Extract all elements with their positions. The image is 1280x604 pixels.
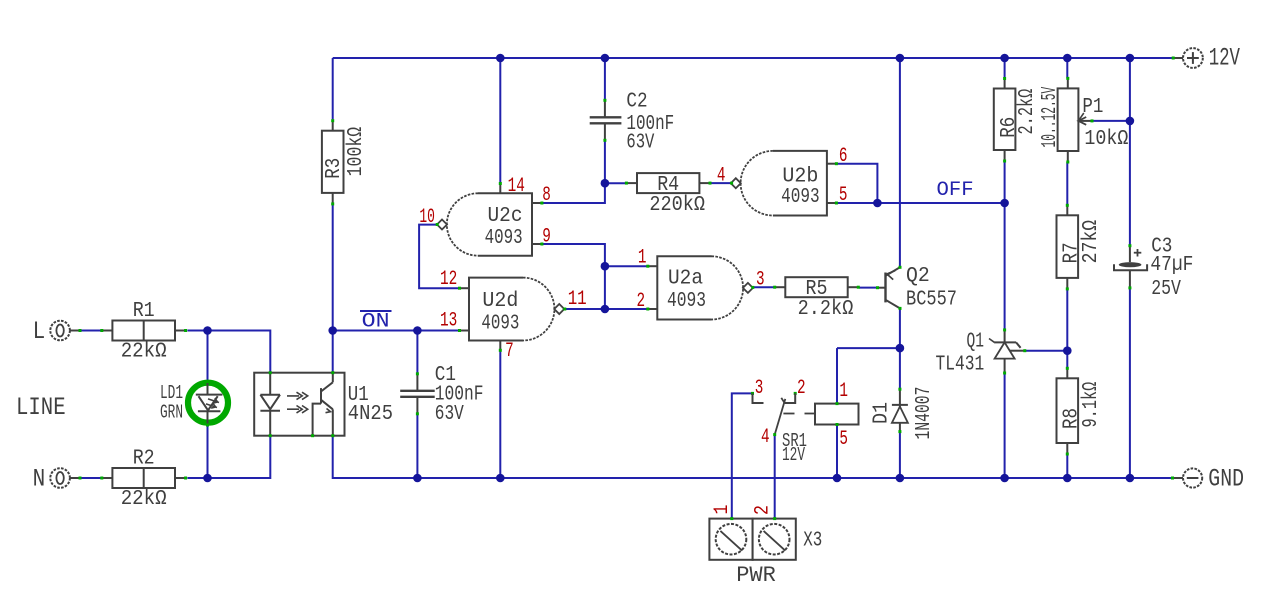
label 4N25 bbox=[348, 403, 393, 426]
wire R3 top column bbox=[332, 58, 334, 119]
resistor R5 bbox=[773, 277, 860, 321]
wire U2d out to U2a pin2 bbox=[564, 308, 648, 310]
label Q2 bbox=[906, 265, 930, 288]
junction top rail C3 bbox=[1126, 54, 1135, 63]
svg-text:R1: R1 bbox=[133, 300, 155, 323]
svg-text:PWR: PWR bbox=[736, 563, 776, 588]
wire C1 bottom wire bbox=[416, 414, 418, 478]
svg-text:U2c: U2c bbox=[488, 205, 523, 228]
pin number 11 bbox=[568, 288, 587, 311]
svg-text:22kΩ: 22kΩ bbox=[121, 340, 167, 363]
wire U2a pin1 wire bbox=[605, 265, 648, 267]
nand gate U2b bbox=[730, 151, 838, 216]
wire Q1 cathode column bbox=[1004, 203, 1006, 330]
label C2 bbox=[626, 91, 674, 155]
junction top rail P1 bbox=[1063, 54, 1072, 63]
wire relay coil branch bbox=[837, 347, 900, 349]
relay SR1 coil bbox=[815, 402, 859, 426]
svg-text:2: 2 bbox=[752, 505, 775, 515]
svg-text:1: 1 bbox=[711, 505, 734, 515]
label 1N4007 bbox=[913, 387, 936, 440]
svg-text:3: 3 bbox=[756, 269, 765, 292]
resistor R7 bbox=[1057, 204, 1104, 291]
junction N LD1 node bbox=[203, 474, 212, 483]
label SR1 12V bbox=[782, 444, 805, 466]
svg-text:5: 5 bbox=[839, 184, 848, 207]
svg-text:25V: 25V bbox=[1151, 278, 1181, 301]
svg-text:4N25: 4N25 bbox=[348, 403, 393, 426]
wire relay pin4 to X3 wire bbox=[774, 435, 776, 519]
label C1 bbox=[435, 364, 484, 426]
svg-text:U2a: U2a bbox=[668, 268, 703, 291]
junction Q1 ref node bbox=[1063, 346, 1072, 355]
svg-text:U2d: U2d bbox=[482, 290, 518, 313]
pin number 12 bbox=[440, 268, 457, 291]
wire C3 bottom column bbox=[1129, 288, 1131, 478]
pin number 8 bbox=[542, 184, 551, 207]
resistor R3 bbox=[322, 119, 368, 205]
shunt regulator Q1 TL431 bbox=[989, 328, 1026, 374]
label GRN bbox=[160, 402, 183, 424]
svg-text:Q1: Q1 bbox=[967, 331, 985, 354]
pin number 4 bbox=[761, 426, 770, 449]
capacitor C3 electrolytic bbox=[1114, 244, 1147, 289]
wire P1 to R7 wire bbox=[1066, 162, 1068, 206]
wire U2c output to pin12 bbox=[419, 225, 459, 289]
wire N terminal wire bbox=[70, 477, 102, 479]
wire C1 top wire bbox=[416, 331, 418, 375]
LED LD1 symbol bbox=[196, 380, 223, 427]
pin number 7 bbox=[505, 340, 514, 363]
resistor R6 bbox=[994, 77, 1039, 163]
wire U2c pin8 wire bbox=[542, 183, 605, 203]
wire OFF net wire bbox=[877, 202, 1004, 204]
svg-text:4093: 4093 bbox=[485, 227, 523, 250]
junction OFF R6 node bbox=[1000, 199, 1009, 208]
wire Q1 ref wire bbox=[1025, 350, 1068, 352]
power symbol +12V bbox=[1172, 48, 1203, 68]
terminal L bbox=[50, 321, 81, 341]
wire U2d pin7 wire bbox=[499, 351, 501, 478]
wire R4 left wire bbox=[605, 182, 627, 184]
optocoupler U1 bbox=[254, 371, 344, 437]
connector X3 terminal 2 bbox=[753, 517, 796, 560]
wire LD1 top wire bbox=[207, 331, 209, 382]
wire R8 bottom wire bbox=[1066, 454, 1068, 478]
resistor R1 bbox=[100, 300, 187, 363]
wire relay pin1 wire bbox=[836, 348, 838, 404]
wire Q2 emitter column bbox=[899, 58, 901, 267]
wire LD1 bottom wire bbox=[207, 425, 209, 478]
svg-text:L: L bbox=[33, 317, 46, 346]
svg-text:P1: P1 bbox=[1082, 96, 1103, 119]
wire U2b pin5 wire bbox=[836, 202, 877, 204]
wire R7 to R8 wire bbox=[1066, 289, 1068, 368]
svg-text:4: 4 bbox=[717, 165, 726, 188]
junction C1 gnd node bbox=[413, 474, 422, 483]
svg-text:1: 1 bbox=[638, 247, 647, 270]
junction pin7 gnd node bbox=[496, 474, 505, 483]
svg-text:GND: GND bbox=[1208, 465, 1244, 494]
svg-text:ON: ON bbox=[362, 311, 390, 334]
svg-text:LD1: LD1 bbox=[160, 382, 183, 404]
pin number 14 bbox=[508, 175, 525, 198]
pin number 13 bbox=[440, 309, 457, 332]
svg-text:22kΩ: 22kΩ bbox=[121, 488, 167, 511]
wire P1 top wire bbox=[1066, 58, 1068, 78]
svg-text:2: 2 bbox=[797, 377, 806, 400]
pin number 3 bbox=[756, 269, 765, 292]
svg-text:BC557: BC557 bbox=[906, 288, 957, 311]
svg-text:12V: 12V bbox=[1209, 44, 1240, 73]
label Q1 bbox=[967, 331, 985, 354]
svg-text:100kΩ: 100kΩ bbox=[345, 127, 368, 177]
wire U2c pin14 column bbox=[499, 58, 501, 184]
junction top rail R6 bbox=[1000, 54, 1009, 63]
nand gate U2c bbox=[436, 182, 544, 256]
junction pin1 node bbox=[601, 262, 610, 271]
junction top rail Q2 bbox=[896, 54, 905, 63]
junction pin2 node bbox=[601, 305, 610, 314]
net label ON with overline bbox=[360, 311, 392, 334]
svg-text:TL431: TL431 bbox=[936, 354, 985, 377]
label PWR bbox=[736, 563, 776, 588]
wire top +12V rail bbox=[333, 57, 1173, 59]
relay SR1 contact bbox=[751, 392, 814, 436]
svg-text:63V: 63V bbox=[626, 132, 654, 155]
label TL431 bbox=[936, 354, 985, 377]
wire U2a output wire bbox=[752, 286, 774, 288]
svg-text:1: 1 bbox=[839, 380, 848, 403]
wire bottom GND rail bbox=[333, 436, 1173, 478]
svg-text:X3: X3 bbox=[803, 530, 822, 553]
label BC557 bbox=[906, 288, 957, 311]
junction top rail C2 bbox=[601, 54, 610, 63]
pin number 10 bbox=[419, 206, 435, 229]
terminal N bbox=[50, 468, 81, 488]
wire R5 to Q2 base bbox=[859, 287, 878, 289]
svg-text:4: 4 bbox=[761, 426, 770, 449]
LED LD1 green ring bbox=[188, 383, 228, 423]
label D1 bbox=[871, 402, 894, 424]
svg-text:47µF: 47µF bbox=[1150, 254, 1193, 277]
label P1 bbox=[1082, 96, 1103, 119]
pin number 9 bbox=[542, 226, 551, 249]
wire C3 top column bbox=[1129, 58, 1131, 246]
svg-text:12V: 12V bbox=[782, 444, 805, 466]
wire D1 bottom wire bbox=[899, 432, 901, 478]
svg-text:2.2kΩ: 2.2kΩ bbox=[1016, 89, 1039, 135]
svg-text:OFF: OFF bbox=[937, 179, 974, 202]
svg-text:Q2: Q2 bbox=[906, 265, 930, 288]
svg-text:3: 3 bbox=[755, 377, 764, 400]
capacitor C1 bbox=[400, 372, 435, 415]
label X3 bbox=[803, 530, 822, 553]
pin number 6 bbox=[839, 145, 848, 168]
wire U2b pin6 wire bbox=[836, 164, 877, 203]
junction ON node bbox=[328, 326, 337, 335]
wire P1 wiper wire bbox=[1092, 120, 1130, 122]
svg-text:10..12.5V: 10..12.5V bbox=[1039, 87, 1062, 148]
junction Q2 relay node bbox=[896, 344, 905, 353]
junction P1 wiper node bbox=[1126, 117, 1135, 126]
wire R4 to U2b output bbox=[711, 182, 733, 184]
net label LINE bbox=[16, 393, 66, 422]
svg-text:13: 13 bbox=[440, 309, 457, 332]
wire R3 bottom to ON node bbox=[332, 204, 334, 330]
wire ON net wire bbox=[333, 330, 460, 332]
pin number X3-2 bbox=[752, 505, 775, 515]
capacitor C2 bbox=[590, 99, 622, 142]
svg-text:N: N bbox=[33, 465, 46, 494]
pin number 5 bbox=[839, 428, 848, 451]
svg-text:GRN: GRN bbox=[160, 402, 183, 424]
wire Q1 anode column bbox=[1004, 373, 1006, 478]
junction R8 gnd node bbox=[1063, 474, 1072, 483]
svg-text:220kΩ: 220kΩ bbox=[649, 194, 705, 217]
label C3 bbox=[1150, 236, 1193, 302]
svg-text:5: 5 bbox=[839, 428, 848, 451]
svg-text:27kΩ: 27kΩ bbox=[1080, 220, 1103, 264]
label 10k bbox=[1084, 128, 1128, 151]
svg-text:1N4007: 1N4007 bbox=[913, 387, 936, 440]
net label 12V bbox=[1209, 44, 1240, 73]
junction C3 gnd node bbox=[1126, 474, 1135, 483]
transistor Q2 bbox=[876, 266, 902, 310]
svg-text:2: 2 bbox=[637, 290, 646, 313]
junction top rail pin14 bbox=[496, 54, 505, 63]
pin number 2 bbox=[637, 290, 646, 313]
junction D1 gnd node bbox=[896, 474, 905, 483]
resistor R2 bbox=[100, 448, 187, 511]
svg-text:4093: 4093 bbox=[781, 186, 820, 209]
net label OFF bbox=[937, 179, 974, 202]
svg-text:12: 12 bbox=[440, 268, 457, 291]
pin number 1 bbox=[638, 247, 647, 270]
pin number 3 bbox=[755, 377, 764, 400]
wire left mains bottom wire bbox=[187, 436, 270, 478]
net label GND bbox=[1208, 465, 1244, 494]
svg-text:R3: R3 bbox=[323, 158, 346, 179]
wire relay pin3 wire bbox=[732, 393, 753, 518]
junction R1 LD1 node bbox=[203, 326, 212, 335]
pin number 2 bbox=[797, 377, 806, 400]
junction R4 C2 node bbox=[601, 179, 610, 188]
svg-text:63V: 63V bbox=[435, 403, 464, 426]
wire C2 top column bbox=[604, 58, 606, 100]
wire U2c pin9 wire bbox=[542, 244, 605, 309]
nand gate U2a bbox=[646, 256, 754, 319]
svg-text:C2: C2 bbox=[626, 91, 647, 114]
resistor R4 bbox=[625, 173, 712, 217]
svg-text:4093: 4093 bbox=[481, 312, 519, 335]
pin number 4 bbox=[717, 165, 726, 188]
power symbol GND bbox=[1171, 468, 1202, 487]
svg-text:R2: R2 bbox=[133, 448, 155, 471]
svg-text:4093: 4093 bbox=[667, 290, 706, 313]
pin number X3-1 bbox=[711, 505, 734, 515]
svg-text:D1: D1 bbox=[871, 402, 894, 424]
label SR1 bbox=[782, 430, 807, 452]
svg-text:LINE: LINE bbox=[16, 393, 66, 422]
connector X3 terminal 1 bbox=[709, 517, 752, 560]
svg-text:2.2kΩ: 2.2kΩ bbox=[798, 298, 854, 321]
wire Q2 collector column bbox=[899, 308, 901, 348]
pin number 1 bbox=[839, 380, 848, 403]
svg-text:11: 11 bbox=[568, 288, 587, 311]
nand gate U2d bbox=[458, 278, 566, 352]
wire R6 top wire bbox=[1004, 58, 1006, 78]
wire C2 to R4 node bbox=[604, 141, 606, 183]
wire L terminal wire bbox=[70, 330, 102, 332]
wire R1 to opto wire bbox=[187, 331, 270, 373]
svg-text:9.1kΩ: 9.1kΩ bbox=[1080, 382, 1103, 428]
junction C1 ON node bbox=[413, 326, 422, 335]
svg-text:10: 10 bbox=[419, 206, 435, 229]
pin number 5 bbox=[839, 184, 848, 207]
svg-text:6: 6 bbox=[839, 145, 848, 168]
svg-text:7: 7 bbox=[505, 340, 514, 363]
svg-text:14: 14 bbox=[508, 175, 525, 198]
svg-text:8: 8 bbox=[542, 184, 551, 207]
potentiometer P1 bbox=[1039, 77, 1094, 164]
label LD1 bbox=[160, 382, 183, 404]
svg-text:9: 9 bbox=[542, 226, 551, 249]
resistor R8 bbox=[1057, 367, 1104, 456]
net label L bbox=[33, 317, 46, 346]
wire relay pin5 wire bbox=[836, 425, 838, 479]
svg-text:10kΩ: 10kΩ bbox=[1084, 128, 1128, 151]
junction relay gnd node bbox=[833, 474, 842, 483]
wire R6 bottom wire bbox=[1004, 162, 1006, 203]
label U1 bbox=[348, 384, 369, 407]
junction Q1 gnd node bbox=[1000, 474, 1009, 483]
junction U2b output node bbox=[873, 199, 882, 208]
wire Q2 to D1 wire bbox=[899, 348, 901, 389]
net label N bbox=[33, 465, 46, 494]
diode D1 bbox=[892, 388, 908, 433]
wire U1 collector wire bbox=[332, 331, 334, 373]
